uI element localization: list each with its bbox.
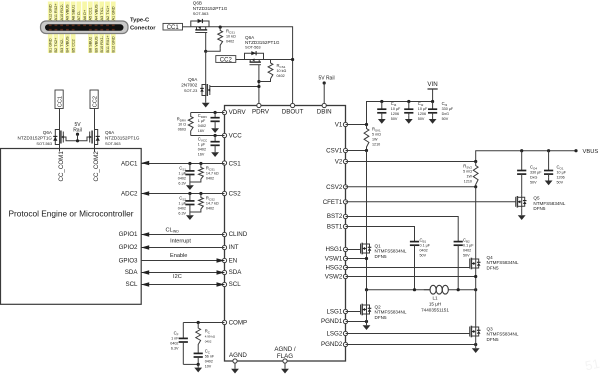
transistor Q4 NTMFS5834NL DFN5 — [470, 257, 481, 271]
svg-text:VSW1: VSW1 — [325, 255, 343, 262]
svg-text:Q6A: Q6A — [188, 77, 198, 82]
pin CS1 — [222, 161, 241, 168]
junction compensation ground — [197, 363, 200, 366]
ground CDRV — [211, 125, 219, 133]
junction CS2 at RCS resistor — [199, 192, 202, 195]
pin VDRV — [222, 109, 246, 116]
svg-text:10 µF: 10 µF — [557, 170, 567, 174]
wire VCC — [191, 135, 225, 137]
svg-text:50V: 50V — [442, 117, 449, 121]
svg-text:ADC2: ADC2 — [121, 191, 138, 198]
svg-text:GPIO2: GPIO2 — [119, 244, 138, 251]
wire CC1 down to Q6A — [59, 109, 61, 131]
junction CO4 top — [520, 149, 523, 152]
svg-text:50V: 50V — [557, 180, 564, 184]
wire LSG2 to Q3 gate — [346, 333, 470, 335]
capacitor CB2 0.1uF — [454, 242, 463, 290]
svg-text:DFN5: DFN5 — [487, 266, 499, 271]
junction DBOUT column — [291, 58, 294, 61]
svg-text:DxG: DxG — [530, 175, 538, 179]
svg-text:10 µF: 10 µF — [418, 107, 428, 111]
label CI2 10 uF 1206 50V — [418, 101, 428, 121]
Type-C connector pin labels A12-A1 (top row) — [48, 2, 116, 22]
svg-text:HSG2: HSG2 — [325, 265, 342, 272]
svg-text:0402: 0402 — [205, 360, 213, 364]
svg-text:Q2: Q2 — [375, 304, 382, 309]
svg-text:6.3V: 6.3V — [178, 212, 186, 216]
svg-text:BST2: BST2 — [327, 213, 343, 220]
svg-text:0402: 0402 — [226, 40, 234, 44]
junction SW1 at CB1 — [413, 288, 416, 291]
label Q6B NTZD3152PT1G SOT-563 — [193, 1, 228, 17]
svg-text:B11 RX1+: B11 RX1+ — [106, 35, 110, 53]
svg-text:A12 GND: A12 GND — [49, 4, 53, 21]
junction CSV2 node — [474, 185, 477, 188]
svg-text:10 µF: 10 µF — [391, 107, 401, 111]
label Q3 NTMFS5834NL DFN5 — [487, 326, 519, 342]
svg-text:Q5: Q5 — [533, 196, 540, 201]
wire BST1 to CB1 — [346, 227, 415, 242]
svg-text:B12 GND: B12 GND — [112, 36, 116, 53]
junction CS1 at CS cap — [188, 162, 191, 165]
pin AGND — [229, 352, 247, 363]
resistor RC 4.99 kOhm — [196, 323, 201, 346]
svg-text:ADC1: ADC1 — [121, 161, 138, 168]
svg-text:6.3V: 6.3V — [171, 347, 179, 351]
svg-text:PDRV: PDRV — [252, 109, 270, 116]
pin BST1 — [327, 224, 348, 231]
wire VDRV — [191, 112, 225, 114]
arrow into MCU SDA — [141, 270, 149, 274]
label CB1 0.1uF 0402 50V — [420, 238, 431, 258]
label CB2 0.1uF 0402 50V — [463, 238, 474, 258]
svg-text:SOT-563: SOT-563 — [105, 141, 121, 146]
svg-text:A11 RX2+: A11 RX2+ — [54, 3, 58, 21]
svg-text:B5 CC2: B5 CC2 — [71, 39, 75, 52]
label CC 56nF 0402 10V — [205, 349, 215, 369]
svg-text:VIN: VIN — [427, 81, 437, 88]
svg-text:L1: L1 — [432, 295, 438, 300]
wire CC2 to Q6A — [236, 59, 245, 61]
wire PGND2 — [346, 344, 476, 346]
svg-text:Protocol Engine or Microcontro: Protocol Engine or Microcontroller — [9, 208, 134, 218]
svg-text:DFN5: DFN5 — [375, 315, 387, 320]
svg-text:A6 D+: A6 D+ — [83, 9, 87, 20]
svg-text:SOT-563: SOT-563 — [193, 11, 209, 16]
wire SCL — [141, 284, 224, 286]
svg-text:A2 TX1+: A2 TX1+ — [106, 5, 110, 21]
wire Q3 drain to SW2 — [475, 290, 477, 325]
label CS2 1uF 0402 6.3V — [178, 196, 187, 216]
svg-text:NTZD3152PT1G: NTZD3152PT1G — [105, 136, 140, 141]
svg-text:CC2: CC2 — [220, 58, 233, 64]
pin CSV1 — [326, 148, 347, 155]
label CF 1nF 0402 6.3V — [170, 331, 179, 351]
ground Q3 source — [472, 339, 480, 354]
capacitor CDRV 1uF — [211, 113, 220, 126]
wire LSG1 to Q2 gate — [346, 311, 361, 313]
label Q6A NTZD3152PT1G SOT-563 (right) — [105, 130, 140, 146]
label Q1 NTMFS5834NL DFN5 — [375, 243, 407, 259]
pin BST2 — [327, 213, 348, 220]
svg-text:NTZD3152PT1G: NTZD3152PT1G — [18, 136, 53, 141]
pin LSG1 — [326, 309, 347, 316]
svg-text:CC2: CC2 — [93, 96, 99, 107]
svg-text:0.1 µF: 0.1 µF — [420, 244, 431, 248]
arrow into IC SCL — [217, 282, 225, 286]
svg-text:B3 TX2-: B3 TX2- — [60, 38, 64, 53]
ground Q2 source — [363, 317, 371, 331]
pin VSW2 — [325, 274, 348, 281]
svg-text:SOT-563: SOT-563 — [36, 141, 52, 146]
svg-text:SCL: SCL — [125, 281, 138, 288]
pin V2 — [335, 159, 348, 166]
svg-text:0402: 0402 — [198, 148, 206, 152]
svg-text:14.7 kΩ: 14.7 kΩ — [206, 172, 219, 176]
svg-text:330 µF: 330 µF — [442, 107, 454, 111]
svg-text:1210: 1210 — [372, 143, 380, 147]
svg-text:1206: 1206 — [557, 175, 565, 179]
label CS1 1uF 0402 6.3V — [178, 166, 187, 186]
svg-text:50V: 50V — [530, 180, 537, 184]
junction CSV1 node — [365, 149, 368, 152]
wire BST2 to CB2 — [346, 217, 459, 242]
wire CS1 to ADC1 — [141, 163, 224, 165]
label Q5 NTMFS5834NL DFN5 — [533, 196, 565, 212]
wire Q1 source to SW1 — [366, 256, 368, 290]
ground CS2 — [186, 212, 194, 220]
svg-text:NTMFS5834NL: NTMFS5834NL — [375, 310, 407, 315]
wire HSG1 to Q1 gate — [346, 249, 361, 251]
capacitor CS2 1uF — [185, 194, 194, 213]
pin HSG1 — [325, 246, 347, 253]
junction V2 node — [474, 160, 477, 163]
svg-text:1 nF: 1 nF — [171, 337, 179, 341]
svg-text:1 µF: 1 µF — [198, 143, 206, 147]
wire CSV1 node down to Q1 drain — [366, 151, 368, 242]
svg-text:A8 SBU1: A8 SBU1 — [71, 5, 75, 21]
svg-text:A9 VBUS: A9 VBUS — [66, 4, 70, 21]
junction VDRV at CDRV — [214, 111, 217, 114]
resistor RSV1 5 mOhm — [364, 125, 369, 151]
svg-text:6.3V: 6.3V — [178, 182, 186, 186]
svg-text:EN: EN — [229, 258, 238, 265]
svg-text:PGND2: PGND2 — [321, 341, 343, 348]
svg-text:0402: 0402 — [170, 342, 178, 346]
capacitor CI4 10 uF — [377, 102, 386, 116]
arrow into MCU SCL — [141, 282, 149, 286]
svg-text:V2: V2 — [335, 159, 343, 166]
Type-C connector J1 receptacle body — [41, 21, 129, 34]
svg-text:Q3: Q3 — [487, 326, 494, 331]
net label CC1 — [163, 23, 183, 31]
svg-text:50V: 50V — [463, 254, 470, 258]
svg-text:A1 GND: A1 GND — [112, 6, 116, 20]
label CI4 10 uF 1206 50V — [391, 101, 401, 121]
pin EN — [222, 258, 237, 265]
arrow into ADC2 — [141, 191, 149, 195]
svg-text:74403551151: 74403551151 — [421, 307, 449, 312]
block Protocol Engine or Microcontroller — [1, 149, 142, 305]
svg-text:B8 SBU2: B8 SBU2 — [89, 37, 93, 53]
power VIN — [427, 81, 437, 101]
svg-text:DBIN: DBIN — [317, 109, 332, 116]
junction PGND1 node — [365, 320, 368, 323]
net label CC2 (vertical) — [90, 90, 99, 109]
junction SW2 at CB2 — [457, 288, 460, 291]
svg-text:CSV1: CSV1 — [326, 148, 343, 155]
transistor Q5 NTMFS5834NL DFN5 — [516, 195, 527, 209]
svg-text:56 nF: 56 nF — [205, 355, 215, 359]
svg-text:A4 VBUS: A4 VBUS — [94, 4, 98, 21]
ground Q5 source — [518, 209, 526, 220]
wire CF to ground node — [183, 363, 198, 365]
pin PDRV — [252, 103, 270, 115]
wire CS2 to ADC2 — [141, 193, 224, 195]
pin INT — [222, 244, 238, 251]
svg-text:DFN5: DFN5 — [533, 206, 545, 211]
svg-text:COMP: COMP — [229, 320, 248, 327]
label RDRV 10 Ohm 0603 — [177, 117, 187, 132]
transistor Q6A 2N7002 SOT-23 dead-battery FET — [200, 51, 259, 97]
junction VSW2 node — [474, 275, 477, 278]
arrow into GPIO1 — [141, 232, 149, 236]
svg-text:I2C: I2C — [173, 274, 182, 280]
svg-text:FLAG: FLAG — [277, 353, 293, 360]
transistor Q6A NTZD3152PT1G (CC_COM2 FET) — [78, 130, 100, 146]
svg-text:0402: 0402 — [205, 339, 212, 343]
svg-text:1 µF: 1 µF — [179, 202, 187, 206]
label CDRV 1uF 0402 16V — [198, 113, 207, 133]
svg-text:DFN5: DFN5 — [375, 254, 387, 259]
svg-text:DBOUT: DBOUT — [282, 109, 304, 116]
svg-text:DxG: DxG — [442, 112, 450, 116]
resistor RSV2 5 mOhm — [473, 162, 478, 187]
label L1 15uH 74403551151 — [421, 295, 449, 312]
label RCS1 10 kOhm 0402 — [277, 63, 287, 78]
wire Q6B tail down to node — [205, 33, 207, 52]
svg-text:10V: 10V — [205, 365, 212, 369]
svg-text:BST1: BST1 — [327, 224, 343, 231]
label RCS1 14.7 kOhm 0402 — [206, 166, 219, 181]
svg-text:A7 D-: A7 D- — [77, 10, 81, 20]
svg-text:1206: 1206 — [418, 112, 426, 116]
svg-text:SCL: SCL — [229, 281, 242, 288]
svg-text:GPIO3: GPIO3 — [119, 258, 138, 265]
wire INT to GPIO2 — [141, 247, 224, 249]
svg-text:1W: 1W — [466, 175, 472, 179]
pin CLIND — [222, 231, 247, 238]
svg-text:VCC: VCC — [229, 133, 243, 140]
ground CVCC — [211, 149, 219, 157]
svg-text:A10 RX2-: A10 RX2- — [60, 3, 64, 20]
wire V2 — [346, 161, 476, 163]
svg-text:1210: 1210 — [464, 180, 472, 184]
junction PGND2 node — [474, 343, 477, 346]
arrow into IC SDA — [217, 270, 225, 274]
junction V1 node — [365, 123, 368, 126]
wire GPIO3 to EN — [141, 260, 224, 262]
svg-text:A3 TX1-: A3 TX1- — [100, 6, 104, 21]
junction CS1 at RCS resistor — [199, 162, 202, 165]
arrow into GPIO2 — [141, 245, 149, 249]
transistor Q3 NTMFS5834NL DFN5 — [470, 325, 481, 339]
svg-text:50V: 50V — [418, 117, 425, 121]
junction VCC at CVCC — [214, 134, 217, 137]
svg-text:NTMFS5834NL: NTMFS5834NL — [487, 260, 519, 265]
wire CSV1 — [346, 150, 367, 152]
svg-text:16V: 16V — [198, 129, 205, 133]
svg-text:CC1: CC1 — [58, 96, 64, 107]
label Q6A NTZD3152PT1G SOT-563 — [245, 35, 280, 50]
svg-text:AGND /: AGND / — [274, 346, 296, 353]
wire SW1 node — [367, 289, 431, 291]
junction CI4 top — [380, 100, 383, 103]
power 5V Rail (DBIN) — [318, 76, 334, 106]
svg-text:Type-C: Type-C — [130, 18, 150, 24]
arrow into ADC1 — [141, 161, 149, 165]
svg-text:Interrupt: Interrupt — [170, 239, 191, 245]
svg-text:CS1: CS1 — [229, 161, 242, 168]
wire CSV2 node down to Q4 drain — [475, 187, 477, 257]
pin AGND/FLAG — [274, 346, 296, 363]
junction CI2 top — [407, 100, 410, 103]
pin VSW1 — [325, 255, 348, 262]
label CO1 10uF 1206 50V — [557, 164, 567, 184]
svg-text:VSW2: VSW2 — [325, 274, 343, 281]
label Type-C Conector — [130, 18, 156, 32]
svg-text:B1 GND: B1 GND — [49, 38, 53, 52]
pin HSG2 — [325, 265, 347, 272]
pin DBIN — [317, 103, 332, 115]
label Q6A 2N7002 SOT-23 — [181, 77, 198, 93]
svg-text:B4 VBUS: B4 VBUS — [66, 36, 70, 53]
capacitor CI2 10 uF — [404, 102, 413, 116]
resistor RCS1 14.7 kOhm — [190, 164, 203, 183]
label CI3 330 uF DxG 50V — [442, 101, 454, 121]
pin CS2 — [222, 191, 241, 198]
svg-text:CC1: CC1 — [167, 25, 180, 31]
pin COMP — [222, 320, 247, 327]
resistor RCS2 14.7 kOhm — [190, 194, 203, 213]
svg-text:1 µF: 1 µF — [179, 172, 187, 176]
ground CS1 — [186, 182, 194, 190]
capacitor CF 1nF — [179, 323, 188, 365]
ground COMP network — [194, 364, 202, 372]
junction CI3 top — [431, 100, 434, 103]
svg-text:VBUS: VBUS — [583, 149, 599, 155]
junction COMP at RC — [197, 321, 200, 324]
svg-text:0603: 0603 — [178, 128, 186, 132]
pin CSV2 — [326, 184, 347, 191]
capacitor CI3 330 uF — [428, 102, 437, 116]
pin CC_COM2 — [93, 145, 100, 182]
pin CFET1 — [323, 199, 348, 206]
wire V1 — [346, 124, 367, 126]
transistor Q6A NTZD3152PT1G (CC_COM1 FET) — [53, 130, 77, 146]
svg-text:CFET1: CFET1 — [323, 199, 343, 206]
label RC 4.99 kOhm 0402 — [205, 329, 216, 344]
svg-text:B9 VBUS: B9 VBUS — [94, 36, 98, 53]
capacitor CO1 10uF — [544, 151, 553, 178]
pin PGND1 — [321, 318, 348, 325]
wire CSV2 — [346, 186, 476, 188]
label RSV2 5 mOhm 1W 1210 — [463, 164, 472, 184]
pin CC_COM1 — [58, 145, 65, 182]
op-amp U1 main PD controller IC body — [225, 106, 346, 362]
capacitor CVCC 1uF — [211, 136, 220, 150]
capacitor CO4 330uF — [517, 151, 526, 195]
svg-text:PGND1: PGND1 — [321, 318, 343, 325]
wire VIN rail — [367, 102, 433, 125]
capacitor CS1 1uF — [185, 164, 194, 183]
svg-text:Enable: Enable — [170, 253, 187, 259]
svg-text:HSG1: HSG1 — [325, 246, 342, 253]
svg-text:10 kΩ: 10 kΩ — [226, 35, 236, 39]
wire Q6A rail to DBOUT column — [264, 59, 293, 61]
svg-text:1 µF: 1 µF — [198, 119, 206, 123]
svg-text:10 kΩ: 10 kΩ — [277, 69, 287, 73]
svg-text:0402: 0402 — [206, 177, 214, 181]
svg-text:0402: 0402 — [277, 74, 285, 78]
svg-text:LSG1: LSG1 — [326, 309, 342, 316]
wire SDA — [141, 272, 224, 274]
pin LSG2 — [326, 331, 347, 338]
wire HSG2 to Q4 gate — [346, 267, 470, 269]
svg-text:0.1 µF: 0.1 µF — [463, 244, 474, 248]
svg-text:Q6A: Q6A — [43, 130, 53, 135]
svg-text:NTMFS5834NL: NTMFS5834NL — [375, 249, 407, 254]
node VBUS terminal — [574, 149, 598, 155]
ground 2N7002 source — [202, 98, 210, 108]
pin PGND2 — [321, 341, 348, 348]
svg-text:5 mΩ: 5 mΩ — [463, 170, 472, 174]
wire VSW2 — [346, 276, 476, 278]
svg-text:A5 CC1: A5 CC1 — [89, 7, 93, 20]
wire CC2 down to Q6A — [94, 109, 96, 131]
wire VBUS rail — [476, 151, 576, 162]
svg-text:NTMFS5834NL: NTMFS5834NL — [533, 201, 565, 206]
svg-text:NTZD3152PT1G: NTZD3152PT1G — [193, 6, 228, 11]
label RSV1 5 mOhm 1W 1210 — [372, 127, 381, 147]
svg-text:0402: 0402 — [178, 207, 186, 211]
svg-text:CLIND: CLIND — [229, 231, 248, 238]
svg-text:0402: 0402 — [463, 249, 471, 253]
svg-text:15 µH: 15 µH — [429, 301, 441, 306]
net label CC1 (vertical) — [55, 90, 64, 109]
junction CO1 top — [547, 149, 550, 152]
label RCS2 14.7 kOhm 0402 — [206, 196, 219, 211]
ground CI2 — [405, 116, 413, 124]
pin V1 — [335, 122, 348, 129]
label CO4 330uF DxG 50V — [530, 164, 542, 184]
wire Q4 source to SW2 — [475, 271, 477, 290]
junction CC1 node at RCS1 top — [219, 26, 222, 29]
wire CFET1 to Q5 gate — [346, 201, 516, 203]
svg-text:0402: 0402 — [206, 207, 214, 211]
transistor Q1 NTMFS5834NL DFN5 — [361, 242, 372, 256]
ground CI3 — [429, 116, 437, 124]
resistor RDRV 10 Ohm — [188, 113, 193, 136]
svg-text:GPIO1: GPIO1 — [119, 231, 138, 238]
svg-text:SDA: SDA — [229, 269, 243, 276]
svg-text:10 Ω: 10 Ω — [178, 123, 186, 127]
wire VSW1 — [346, 258, 367, 260]
svg-text:Conector: Conector — [130, 26, 156, 32]
svg-text:50V: 50V — [420, 254, 427, 258]
wire SW2 node — [448, 289, 475, 291]
svg-text:SDA: SDA — [125, 269, 139, 276]
